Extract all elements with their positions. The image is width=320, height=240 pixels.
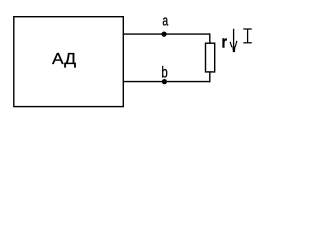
svg-text:АД: АД [52, 51, 76, 68]
wire riser from resistor to node b [209, 72, 211, 82]
resistor r [206, 43, 215, 72]
node a dot [162, 31, 167, 36]
current label I [243, 29, 252, 43]
wire a (top) [124, 33, 210, 35]
svg-text:r: r [222, 34, 228, 52]
node b dot [162, 79, 167, 84]
current arrow (downward) [230, 29, 237, 52]
wire riser from node a to resistor [209, 33, 211, 43]
wire b (bottom) [124, 81, 210, 83]
svg-text:a: a [162, 13, 168, 29]
active two-terminal network box АД [14, 17, 124, 107]
svg-text:b: b [161, 65, 168, 82]
